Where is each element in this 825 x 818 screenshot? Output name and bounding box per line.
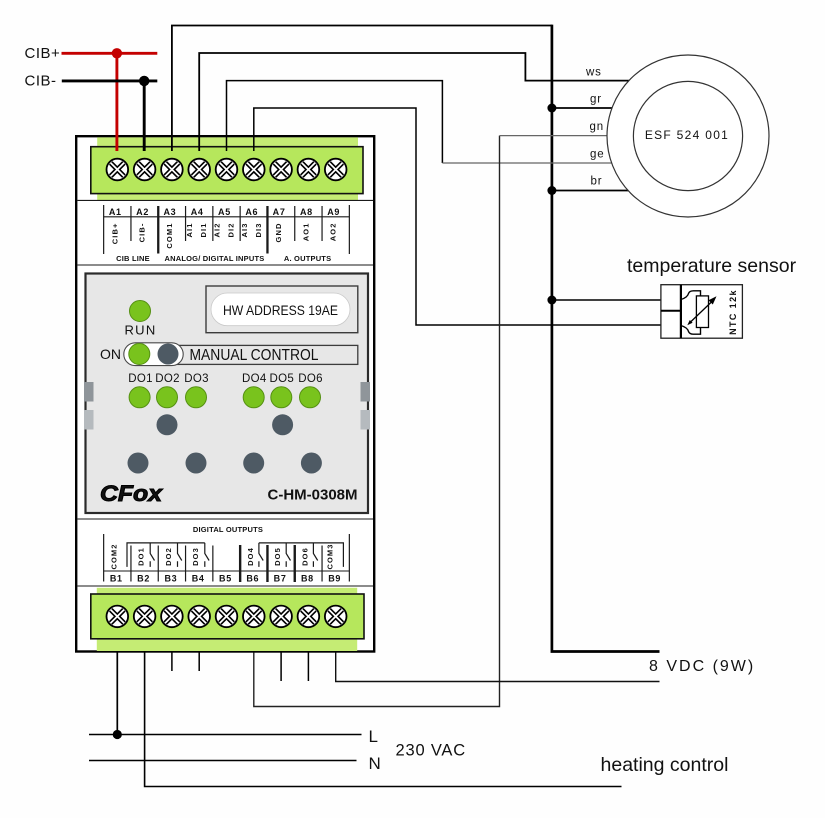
svg-text:DO6: DO6 [300,547,309,566]
svg-text:ge: ge [590,149,604,161]
svg-text:DO4: DO4 [242,373,267,385]
svg-text:A6: A6 [245,207,258,217]
svg-text:N: N [369,754,381,773]
svg-text:COM1: COM1 [165,223,174,249]
svg-text:CIB+: CIB+ [25,45,61,62]
svg-text:DI3: DI3 [254,223,263,238]
svg-text:CIB LINE: CIB LINE [116,254,150,263]
svg-text:DI2: DI2 [227,223,236,238]
svg-text:AI3: AI3 [240,222,249,237]
svg-text:temperature sensor: temperature sensor [627,255,797,277]
svg-text:8 VDC (9W): 8 VDC (9W) [649,658,755,675]
svg-text:DO5: DO5 [273,547,282,566]
svg-text:L: L [369,727,378,746]
svg-text:DO4: DO4 [246,547,255,566]
svg-text:A9: A9 [327,207,340,217]
svg-text:ON: ON [100,346,121,362]
svg-text:br: br [591,176,603,188]
svg-text:A2: A2 [136,207,149,217]
svg-text:DO2: DO2 [155,373,180,385]
svg-text:gn: gn [590,121,604,133]
svg-text:RUN: RUN [124,322,156,337]
svg-text:HW ADDRESS 19AE: HW ADDRESS 19AE [223,303,338,318]
svg-text:NTC 12k: NTC 12k [728,289,738,335]
svg-text:C-HM-0308M: C-HM-0308M [268,487,358,504]
svg-text:DO1: DO1 [137,547,146,566]
svg-text:A. OUTPUTS: A. OUTPUTS [284,254,331,263]
svg-text:B8: B8 [301,574,314,584]
svg-text:CIB+: CIB+ [110,223,119,245]
svg-text:ESF 524 001: ESF 524 001 [645,128,729,142]
svg-text:DO3: DO3 [184,373,209,385]
svg-text:A5: A5 [218,207,231,217]
svg-text:B5: B5 [219,574,232,584]
svg-text:B7: B7 [274,574,287,584]
svg-text:B9: B9 [328,574,341,584]
svg-text:gr: gr [590,94,602,106]
svg-text:A7: A7 [273,207,286,217]
svg-text:CFox: CFox [100,481,163,506]
svg-text:B1: B1 [110,574,123,584]
svg-text:AI2: AI2 [213,223,222,238]
svg-text:heating control: heating control [601,754,729,776]
svg-text:AO2: AO2 [329,223,338,242]
svg-text:B2: B2 [137,574,150,584]
svg-text:CIB-: CIB- [25,72,57,89]
svg-text:DO3: DO3 [191,547,200,566]
svg-text:B4: B4 [192,574,205,584]
svg-text:A4: A4 [191,207,204,217]
svg-text:A8: A8 [300,207,313,217]
svg-text:DO5: DO5 [270,373,295,385]
svg-text:DO1: DO1 [128,373,153,385]
svg-text:ws: ws [585,67,602,79]
svg-text:DO6: DO6 [298,373,323,385]
svg-text:COM2: COM2 [110,543,119,569]
svg-text:AO1: AO1 [301,223,310,242]
svg-text:DI1: DI1 [199,223,208,238]
svg-text:B3: B3 [164,574,177,584]
svg-text:ANALOG/ DIGITAL INPUTS: ANALOG/ DIGITAL INPUTS [165,254,265,263]
svg-text:DIGITAL OUTPUTS: DIGITAL OUTPUTS [193,525,263,534]
svg-text:AI1: AI1 [185,223,194,238]
svg-text:GND: GND [274,223,283,243]
svg-text:230 VAC: 230 VAC [396,742,466,760]
svg-text:MANUAL CONTROL: MANUAL CONTROL [190,347,319,364]
svg-text:CIB-: CIB- [138,223,147,243]
svg-text:A1: A1 [109,207,122,217]
svg-text:A3: A3 [163,207,176,217]
svg-text:B6: B6 [246,574,259,584]
svg-text:COM3: COM3 [326,543,335,569]
svg-text:DO2: DO2 [164,547,173,566]
